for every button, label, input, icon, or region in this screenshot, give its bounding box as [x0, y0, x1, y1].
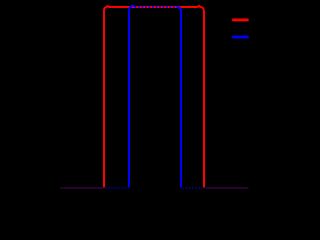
red curve (wide passband response): [104, 6, 204, 187]
legend red line sample: [232, 19, 248, 22]
legend blue line sample: [232, 36, 248, 39]
blue curve plateau overlap (dashed over red plateau): [135, 6, 177, 8]
baseline left segment (red+blue stopband, dim dashed purple): [61, 187, 104, 189]
baseline right segment (red+blue stopband, dim dashed purple): [206, 187, 249, 189]
baseline middle-right segment (blue only, dim dashed navy): [183, 187, 203, 189]
baseline middle-left segment (blue only, dim dashed navy): [105, 187, 128, 189]
blue curve (narrow passband response) left rise: [129, 6, 135, 188]
blue curve right fall: [177, 7, 182, 188]
